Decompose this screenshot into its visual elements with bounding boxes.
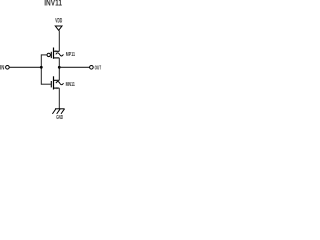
svg-text:INV11: INV11 [44,0,62,7]
svg-text:MP11: MP11 [66,52,76,58]
junction dot output node [58,66,61,69]
source arrow MP11 [54,50,56,52]
wire MP11 gate stub [41,54,47,56]
ground symbol [52,109,64,114]
bulk squiggle MP11 [56,53,64,56]
transistor MP11 (PMOS) [47,48,59,59]
svg-text:VDD: VDD [55,17,62,24]
wire OUT [59,66,89,68]
svg-text:GND: GND [56,115,63,120]
svg-text:OUT: OUT [95,66,102,72]
wire MN11 gate stub [41,83,51,85]
source arrow MN11 [57,87,59,89]
transistor MN11 (NMOS) [51,76,59,89]
power symbol VDD triangle [55,26,62,30]
wire MN11 source to ground [58,88,60,109]
pin IN circle [6,66,10,70]
svg-text:MN11: MN11 [66,82,76,88]
wire MP11 drain to MN11 drain [58,58,60,80]
wire IN to gate [9,66,41,68]
wire VDD to MP11 source [58,30,60,51]
pin OUT circle [90,66,94,70]
junction dot input node [40,66,43,69]
svg-text:IN: IN [0,66,4,72]
wire gate vertical [40,54,42,84]
bulk squiggle MN11 [56,82,64,85]
